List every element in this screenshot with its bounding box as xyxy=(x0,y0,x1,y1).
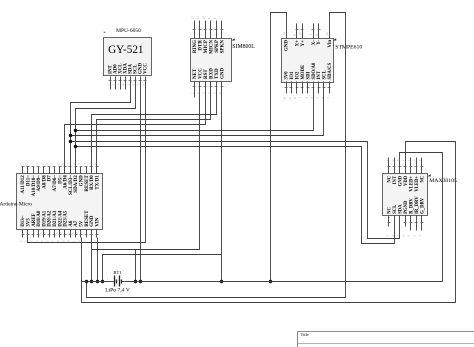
svg-text:SCL: SCL xyxy=(323,70,328,79)
svg-text:Y+: Y+ xyxy=(301,40,306,47)
wire battery minus rail xyxy=(127,281,443,283)
svg-text:A6/D4: A6/D4 xyxy=(64,175,69,189)
wire SDA bus to STMPE610 SDO/A0 xyxy=(74,82,314,133)
wire MAX30105 VDD loop to bottom rail xyxy=(82,142,456,303)
U4 top pin labels (GND X+ Y+ X- Y- Vin) xyxy=(282,24,333,52)
svg-text:IO1: IO1 xyxy=(290,71,295,79)
battery BT1 LiPo 7.4 V symbol xyxy=(105,270,130,293)
svg-text:RX/D0: RX/D0 xyxy=(90,175,95,190)
svg-text:VLED+: VLED+ xyxy=(415,176,420,192)
svg-text:VIN: VIN xyxy=(95,217,100,227)
svg-text:A9/D9~: A9/D9~ xyxy=(37,175,42,192)
svg-text:3V0: 3V0 xyxy=(285,71,290,80)
wire branch of GND wire down to battery rail xyxy=(134,250,137,284)
svg-text:MICP: MICP xyxy=(204,40,209,53)
svg-text:MPU-6050: MPU-6050 xyxy=(116,28,141,34)
svg-text:RST: RST xyxy=(204,69,209,79)
svg-text:LiPo 7,4 V: LiPo 7,4 V xyxy=(105,287,130,293)
svg-text:SDI: SDI xyxy=(306,72,311,80)
svg-text:D18/A0: D18/A0 xyxy=(37,210,42,227)
svg-text:D7: D7 xyxy=(48,175,53,182)
wire Arduino TX/D1 to SIM800L RXD xyxy=(97,82,211,174)
svg-text:PGND: PGND xyxy=(404,200,409,214)
svg-text:A7/D6~: A7/D6~ xyxy=(53,175,58,192)
svg-text:MAX30105: MAX30105 xyxy=(429,178,457,184)
svg-text:GND: GND xyxy=(399,175,404,186)
wire Arduino A6/D4 to SIM800L RST xyxy=(65,82,206,174)
svg-text:DTR: DTR xyxy=(198,40,203,51)
svg-text:Vin: Vin xyxy=(328,40,333,48)
svg-text:BT1: BT1 xyxy=(113,270,122,275)
svg-text:15: 15 xyxy=(325,32,329,36)
wire Arduino VIN down to battery rail xyxy=(96,238,99,284)
U3 bottom pin stubs and labels xyxy=(192,68,226,98)
svg-text:RESET: RESET xyxy=(85,210,90,227)
svg-text:11: 11 xyxy=(196,16,200,19)
IC U1 Arduino Micro body xyxy=(0,174,103,230)
svg-text:NC: NC xyxy=(388,207,393,214)
svg-text:A7: A7 xyxy=(74,220,79,227)
wire Arduino SDA/D2 to GY-521 SDA xyxy=(76,77,136,174)
module U2 GY-521 (MPU-6050) body xyxy=(103,28,151,76)
svg-text:INT: INT xyxy=(393,175,398,184)
svg-text:SPKN: SPKN xyxy=(220,40,225,54)
svg-text:SDO/A0: SDO/A0 xyxy=(312,62,317,79)
module U4 STMPE610 body xyxy=(282,38,363,82)
module U3 SIM800L body xyxy=(191,38,256,81)
svg-text:VDD: VDD xyxy=(404,175,409,186)
svg-text:TXD: TXD xyxy=(215,68,220,79)
svg-text:D21/A3: D21/A3 xyxy=(53,210,58,227)
svg-text:TX/D1: TX/D1 xyxy=(95,175,100,190)
svg-text:NC: NC xyxy=(420,175,425,182)
U5 bottom pin stubs and labels xyxy=(386,196,425,237)
U3 top pin stubs (RING DTR MICP MICN SPKP SPKN) xyxy=(191,16,226,54)
svg-text:RING: RING xyxy=(193,40,198,53)
svg-text:MICN: MICN xyxy=(209,40,214,54)
svg-text:MODE: MODE xyxy=(301,65,306,80)
svg-text:D20/A2: D20/A2 xyxy=(48,210,53,227)
svg-text:12: 12 xyxy=(191,16,195,20)
svg-text:Arduino Micro: Arduino Micro xyxy=(0,202,32,208)
svg-text:GND: GND xyxy=(285,40,290,52)
module U5 MAX30105 body xyxy=(383,174,457,216)
svg-text:Title: Title xyxy=(301,332,309,337)
svg-text:NET: NET xyxy=(193,68,198,79)
svg-text:GND: GND xyxy=(220,68,225,80)
svg-text:A10/D10~: A10/D10~ xyxy=(32,175,37,197)
svg-text:D5~: D5~ xyxy=(58,175,63,184)
svg-text:D11~: D11~ xyxy=(27,175,32,186)
svg-text:3V3: 3V3 xyxy=(27,218,32,227)
svg-text:10: 10 xyxy=(202,16,206,20)
title block frame xyxy=(298,332,474,347)
svg-text:STMPE610: STMPE610 xyxy=(335,45,362,51)
svg-text:A11/D12: A11/D12 xyxy=(21,175,26,194)
svg-text:GND: GND xyxy=(90,215,95,227)
wire SIM800L GND down to battery rail xyxy=(220,82,223,284)
svg-text:IO2: IO2 xyxy=(296,71,301,79)
wire Arduino RX/D0 to SIM800L TXD xyxy=(92,82,217,174)
svg-text:Y-: Y- xyxy=(317,40,322,45)
wire SCL bus to MAX30105 SDA xyxy=(69,140,400,239)
svg-text:IR_DRV: IR_DRV xyxy=(415,196,420,214)
svg-text:X-: X- xyxy=(312,40,317,46)
wire STMPE610 GND loop to left rail xyxy=(269,13,287,284)
svg-text:SDA/CS: SDA/CS xyxy=(328,62,333,79)
svg-text:D23/A5: D23/A5 xyxy=(64,210,69,227)
svg-text:14: 14 xyxy=(282,32,286,36)
svg-text:A6: A6 xyxy=(69,220,74,227)
U2 pin stubs and labels xyxy=(107,63,148,90)
wire Arduino 3V3 to GY-521 VCC xyxy=(28,77,146,243)
svg-text:D19/A1: D19/A1 xyxy=(42,210,47,227)
svg-text:SDA: SDA xyxy=(399,204,404,214)
wire rail branch to SIM800L GND line xyxy=(101,255,222,284)
svg-text:5V: 5V xyxy=(80,220,85,227)
svg-text:RESET: RESET xyxy=(85,175,90,192)
svg-text:SCL: SCL xyxy=(393,205,398,214)
wire MAX30105 GND loop to battery minus rail xyxy=(400,153,443,282)
svg-text:GND: GND xyxy=(80,175,85,187)
svg-text:VCC: VCC xyxy=(144,63,149,74)
svg-text:VCC: VCC xyxy=(198,68,203,79)
svg-text:SPKP: SPKP xyxy=(215,40,220,53)
U4 bottom pin stubs and labels xyxy=(283,62,333,100)
wire GND tap to SIM800L VCC xyxy=(92,82,200,250)
svg-text:VLED+: VLED+ xyxy=(409,176,414,192)
wire GY-521 GND down to battery rail xyxy=(139,77,142,284)
wire Arduino GND down to battery rail xyxy=(90,238,93,284)
svg-text:SIM800L: SIM800L xyxy=(232,44,255,50)
svg-text:GY-521: GY-521 xyxy=(108,44,143,56)
U1 bottom pin stubs and labels xyxy=(20,210,101,243)
svg-text:G_DRV: G_DRV xyxy=(420,197,425,214)
wire SDA bus to MAX30105 SCL xyxy=(74,145,395,244)
svg-text:SCL/D3~: SCL/D3~ xyxy=(69,175,74,195)
svg-text:A8/D8: A8/D8 xyxy=(42,175,47,189)
svg-text:RXD: RXD xyxy=(209,68,214,79)
svg-text:10: 10 xyxy=(298,32,302,36)
svg-text:R_DRV: R_DRV xyxy=(409,198,414,214)
svg-text:SDA/D2: SDA/D2 xyxy=(74,175,79,193)
svg-text:X+: X+ xyxy=(296,40,301,47)
wire STMPE610 Vin loop to right rail xyxy=(85,13,346,298)
wire Arduino SCL/D3 to GY-521 SCL xyxy=(71,77,131,174)
svg-text:INT: INT xyxy=(317,70,322,79)
svg-text:AREF: AREF xyxy=(32,213,37,227)
svg-text:D13~: D13~ xyxy=(21,215,26,227)
svg-text:NC: NC xyxy=(388,175,393,182)
U1 top pin stubs and labels xyxy=(20,163,101,197)
U5 top pin stubs and labels xyxy=(386,158,425,192)
svg-text:D22/A4: D22/A4 xyxy=(58,210,63,227)
wire SCL bus to STMPE610 SCL xyxy=(69,82,324,138)
wire battery plus rail xyxy=(82,238,110,282)
